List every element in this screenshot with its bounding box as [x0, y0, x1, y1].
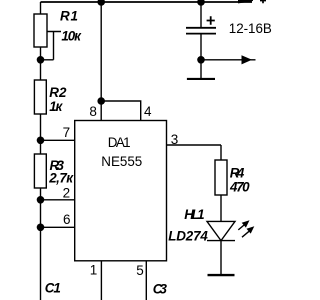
- junction dot R2 bottom pin7: [37, 137, 45, 145]
- capacitor C2 plus sign: [207, 16, 215, 24]
- wire R2 to R3 lead: [40, 114, 42, 154]
- LED HL1 emission arrow 2: [242, 231, 249, 237]
- junction dot pin2: [37, 196, 45, 204]
- svg-text:12-16В: 12-16В: [229, 21, 272, 36]
- junction dot rail pin8: [97, 0, 105, 6]
- svg-text:470: 470: [229, 180, 250, 195]
- LED HL1 triangle: [207, 221, 235, 240]
- wire top power rail: [41, 1, 253, 3]
- svg-text:3: 3: [171, 132, 179, 147]
- svg-text:R2: R2: [49, 85, 67, 100]
- arrowhead top right: [238, 0, 253, 3]
- svg-text:2,7к: 2,7к: [48, 171, 74, 186]
- junction dot cap bottom: [197, 56, 205, 64]
- svg-text:4: 4: [144, 104, 152, 119]
- svg-text:10к: 10к: [61, 29, 82, 44]
- wire R4 to LED: [220, 195, 222, 221]
- wire pin 8 to rail: [100, 2, 102, 101]
- wire capacitor top lead: [200, 2, 202, 27]
- wire R1 top lead: [40, 2, 42, 14]
- LED arrowhead 1: [242, 220, 250, 227]
- svg-text:HL1: HL1: [184, 207, 204, 222]
- svg-text:LD274: LD274: [168, 229, 208, 244]
- wire R3 bottom to C1: [40, 188, 42, 300]
- wire R1 bottom lead: [40, 47, 42, 80]
- ground symbol near LED: [208, 274, 235, 276]
- wire arrow output lower: [201, 59, 256, 61]
- resistor R1: [34, 14, 47, 47]
- svg-text:R4: R4: [230, 166, 245, 181]
- wire capacitor bottom lead: [200, 34, 202, 79]
- capacitor C2 (supply filter) plates: [186, 28, 216, 34]
- svg-text:5: 5: [136, 263, 144, 278]
- ground symbol near C2: [187, 78, 215, 80]
- wire pin 2: [41, 199, 75, 201]
- junction dot bump: [97, 97, 105, 105]
- svg-text:C1: C1: [45, 281, 61, 296]
- junction dot pin6: [37, 224, 45, 232]
- wire pin 3 to R4: [167, 145, 222, 160]
- svg-text:8: 8: [89, 104, 97, 119]
- svg-text:6: 6: [63, 212, 71, 227]
- resistor R3: [34, 154, 46, 188]
- svg-text:1к: 1к: [49, 99, 63, 114]
- svg-text:NE555: NE555: [101, 154, 142, 169]
- svg-text:C3: C3: [153, 282, 168, 297]
- junction dot R1 bottom: [37, 56, 45, 64]
- svg-text:2: 2: [63, 186, 71, 201]
- LED HL1 cathode bar: [207, 240, 235, 242]
- wire pin 7: [41, 139, 75, 141]
- wire pin 6: [41, 226, 75, 228]
- wire pin 8 / pin 4 bump: [101, 101, 141, 121]
- IC DA1 NE555 timer body: [75, 121, 167, 261]
- plus sign top right: [260, 0, 266, 3]
- svg-text:7: 7: [63, 125, 71, 140]
- svg-text:R1: R1: [60, 8, 78, 23]
- LED arrowhead 2: [247, 226, 255, 233]
- wire R1 trimmer tap: [41, 32, 62, 60]
- resistor R2: [34, 80, 46, 114]
- junction dot rail cap: [197, 0, 205, 6]
- wire pin 1 lead: [100, 261, 102, 300]
- resistor R4: [215, 160, 227, 195]
- svg-text:1: 1: [90, 262, 98, 277]
- svg-text:DA1: DA1: [108, 135, 131, 150]
- arrowhead lower output: [242, 55, 253, 64]
- LED HL1 emission arrow 1: [238, 225, 244, 230]
- wire LED to ground: [220, 241, 222, 275]
- wire pin 5 lead: [145, 261, 147, 300]
